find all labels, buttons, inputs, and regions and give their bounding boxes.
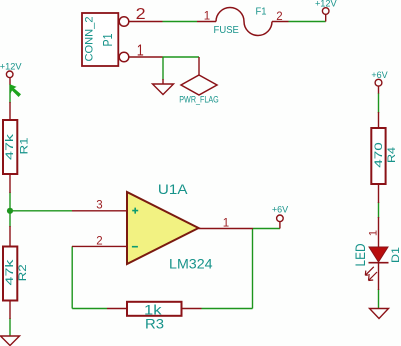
emission arrows [365,267,377,281]
svg-text:+6V: +6V [272,205,288,215]
PWR_FLAG [179,57,219,106]
svg-text:LED: LED [353,243,368,266]
svg-text:P1: P1 [101,33,115,46]
pin 3 [72,210,127,212]
ground bottom-left [1,336,20,346]
fuse F1 [197,6,289,36]
power +6V right column [371,70,387,94]
pin 1 of D1 [378,217,380,247]
svg-text:1: 1 [204,11,210,23]
minus mark [132,246,138,248]
ground bottom-right [370,309,389,319]
svg-text:CONN_2: CONN_2 [84,17,96,62]
pin 1 output [199,228,254,230]
pin 2 of F1 [272,21,289,23]
wire: +12V left column [9,84,11,103]
plus mark [132,208,138,214]
wire: LED to gnd [378,289,380,309]
svg-text:47k: 47k [4,259,16,286]
svg-text:R2: R2 [17,264,29,281]
pin 2 [72,245,127,247]
svg-text:2: 2 [276,11,282,23]
wire: output to +6V [253,228,280,230]
svg-text:U1A: U1A [158,181,188,197]
op-amp U1A [72,181,253,272]
svg-text:2: 2 [136,6,146,23]
svg-text:1: 1 [368,230,380,236]
wire: junction to R2 [9,210,11,227]
wire: R2 bottom to gnd [9,318,11,336]
svg-text:R1: R1 [19,138,31,155]
svg-text:D1: D1 [390,247,401,263]
svg-text:2: 2 [96,235,102,247]
pin 1 of P1 [119,52,129,62]
pin 2 of D1 [378,263,380,290]
wire: connector pin1 horizontal [163,56,200,58]
power +12V top-left [0,62,22,85]
wire: fuse to +12V corner [289,21,326,23]
svg-text:470: 470 [373,142,385,168]
wire: +6V right column top [378,93,380,113]
pin 1 of R1 [9,102,11,120]
LED cathode bar [369,262,389,264]
resistor R4 [371,112,398,203]
LED triangle (anode) [369,247,388,262]
svg-text:3: 3 [96,200,102,212]
wire: R4 to LED [378,202,380,218]
svg-text:1: 1 [137,42,144,59]
wire: feedback bottom left [72,308,107,310]
svg-text:R4: R4 [386,147,398,163]
pin 1 of R4 [378,112,380,128]
wire: connector pin2 to fuse [163,21,198,23]
pin 2 of R1 [9,174,11,193]
svg-text:R3: R3 [145,315,164,331]
pin 1 of R2 [9,226,11,247]
connector P1 [82,6,163,66]
wire: feedback vertical right [252,229,254,309]
svg-text:47k: 47k [4,133,16,160]
svg-text:+12V: +12V [0,62,22,72]
wire: junction to pin3 [10,210,72,212]
resistor R1 [3,102,31,193]
LED D1 [353,217,401,290]
pin 2 of R2 [9,300,11,319]
pin 1 of R3 [107,308,127,310]
svg-text:F1: F1 [256,6,267,17]
pin 2 of R3 [182,308,202,310]
fuse body S-curve [216,8,272,36]
svg-text:FUSE: FUSE [214,25,240,36]
resistor R3 [107,301,202,331]
pin 2 of R4 [378,184,380,203]
svg-text:PWR_FLAG: PWR_FLAG [179,95,219,106]
wire: feedback bottom right [202,308,253,310]
wire: R1 bottom to junction [9,192,11,211]
resistor R2 [3,226,29,319]
mouse cursor [10,84,21,97]
wire: pin2 vertical feedback [71,246,73,308]
svg-text:1: 1 [223,217,229,229]
power +6V near op-amp output [272,205,288,229]
pin 2 of P1 [119,17,129,27]
power +12V top-right [315,0,338,22]
svg-text:+6V: +6V [371,70,387,80]
ground under pin1 [153,79,174,95]
wire: branch down to gnd [162,57,164,80]
svg-text:LM324: LM324 [169,256,213,272]
junction node [7,208,13,214]
pin 1 of F1 [197,21,216,23]
